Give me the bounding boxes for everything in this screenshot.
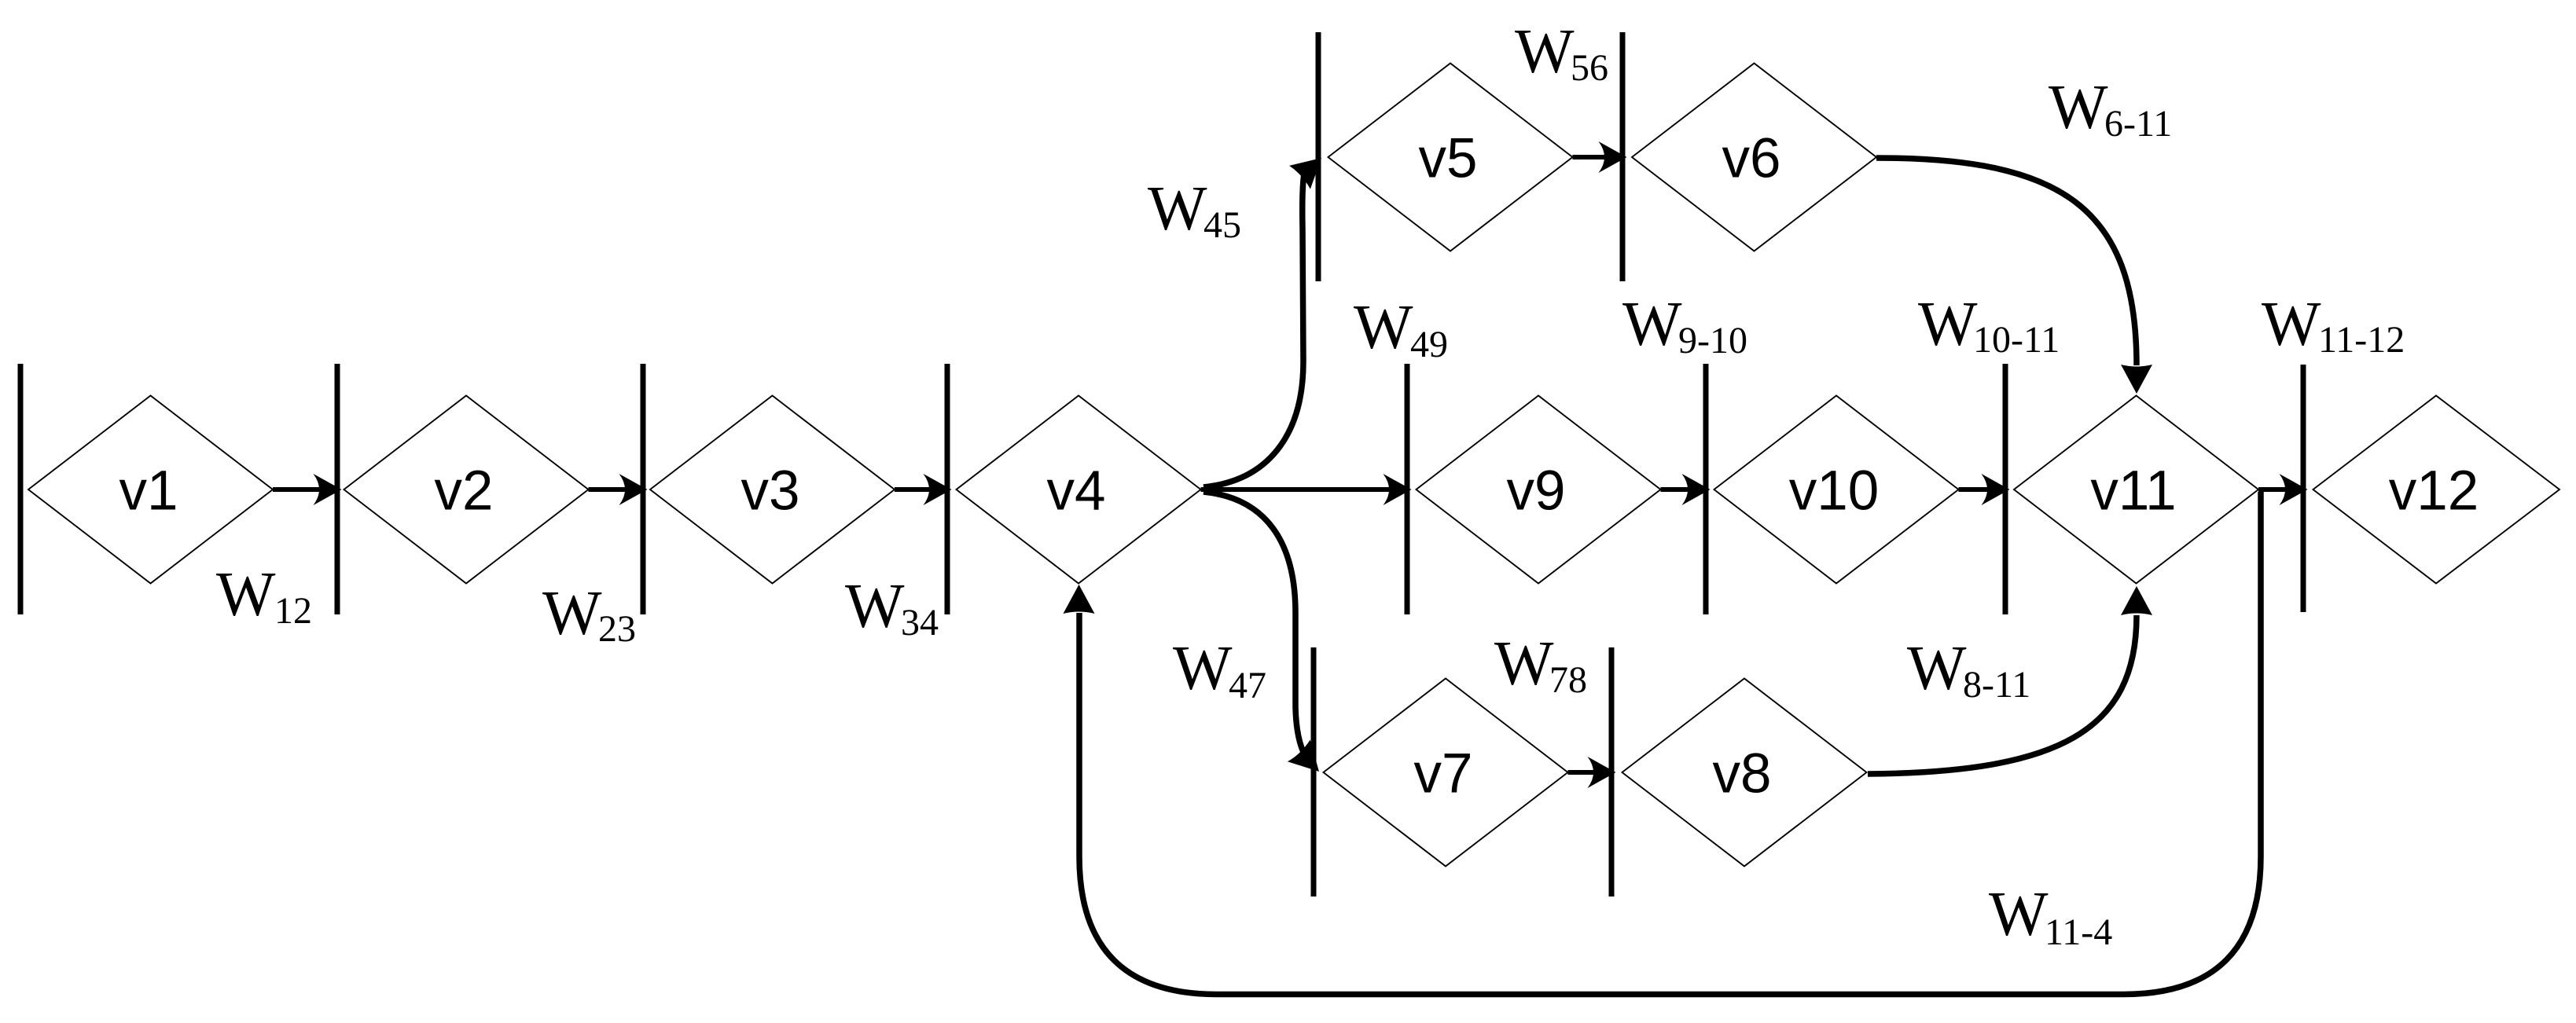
svg-text:45: 45 (1203, 204, 1241, 246)
arrow v2-v3 (589, 474, 648, 505)
bar W56 (1620, 32, 1626, 281)
arrow v10-v11 (1959, 474, 2010, 505)
svg-text:49: 49 (1410, 324, 1448, 365)
svg-text:v5: v5 (1419, 128, 1478, 190)
label W6-11 (2049, 73, 2172, 145)
label W10-11 (1918, 290, 2060, 361)
svg-text:78: 78 (1549, 659, 1587, 701)
svg-text:11-12: 11-12 (2318, 319, 2405, 361)
svg-text:v4: v4 (1047, 460, 1106, 522)
svg-text:34: 34 (901, 602, 939, 643)
label W8-11 (1907, 634, 2030, 706)
svg-text:v12: v12 (2389, 460, 2479, 522)
bar W34 (945, 364, 950, 614)
arrow v5-v6 (1573, 141, 1627, 173)
node v6 (1632, 64, 1876, 251)
bar W12 (335, 364, 340, 614)
arrow W11-4 feedback loop v11-v4 (1064, 492, 2262, 995)
node v2 (344, 396, 589, 584)
label W78 (1494, 629, 1587, 701)
node v10 (1714, 396, 1959, 584)
svg-text:W: W (1907, 634, 1967, 703)
bar W47 bottom (1311, 647, 1317, 896)
svg-text:W: W (1494, 629, 1554, 698)
svg-text:56: 56 (1571, 47, 1608, 89)
arrow W47 curve v4-v7 (1203, 492, 1330, 783)
svg-text:9-10: 9-10 (1678, 320, 1747, 361)
label W11-4 (1989, 880, 2112, 953)
arrow v4-v9 (1201, 474, 1412, 505)
bar start (18, 364, 24, 614)
label W12 (216, 560, 312, 632)
bar W23 (641, 364, 646, 614)
svg-text:v11: v11 (2090, 460, 2176, 522)
svg-text:W: W (1622, 290, 1682, 359)
label W9-10 (1622, 290, 1747, 361)
svg-text:W: W (216, 560, 276, 629)
label W49 (1354, 293, 1448, 365)
node v11 (2014, 396, 2258, 584)
bar W45 top (1316, 32, 1321, 281)
svg-text:W: W (1354, 293, 1413, 362)
svg-text:47: 47 (1229, 665, 1266, 706)
svg-text:12: 12 (274, 590, 312, 632)
node v8 (1622, 679, 1867, 867)
label W11-12 (2262, 290, 2405, 361)
bar W9-10 (1703, 364, 1709, 614)
svg-text:W: W (2262, 290, 2321, 359)
bar W78 (1609, 647, 1615, 896)
arrow v7-v8 (1568, 757, 1616, 788)
label W56 (1515, 17, 1608, 89)
svg-text:v7: v7 (1414, 743, 1473, 805)
arrow v11-v12 (2258, 474, 2308, 505)
node v1 (28, 396, 273, 584)
svg-text:v1: v1 (119, 460, 178, 522)
label W47 (1173, 634, 1266, 706)
svg-text:8-11: 8-11 (1963, 664, 2030, 706)
svg-text:v8: v8 (1713, 743, 1772, 805)
svg-text:W: W (1918, 290, 1978, 359)
node v3 (650, 396, 895, 584)
arrow v1-v2 (273, 474, 342, 505)
node v4 (957, 396, 1201, 584)
svg-text:W: W (1148, 174, 1207, 244)
svg-text:v3: v3 (741, 460, 800, 522)
svg-text:W: W (542, 579, 602, 648)
label W45 (1148, 174, 1241, 246)
svg-text:W: W (845, 572, 905, 641)
svg-text:v10: v10 (1789, 460, 1879, 522)
node v7 (1324, 679, 1568, 867)
svg-text:W: W (2049, 73, 2108, 142)
arrow W6-11 curve v6-v11 (1876, 158, 2152, 394)
arrow W45 curve v4-v5 (1203, 146, 1332, 487)
svg-text:v2: v2 (435, 460, 494, 522)
svg-text:6-11: 6-11 (2104, 103, 2172, 145)
svg-text:v6: v6 (1722, 128, 1781, 190)
arrow v9-v10 (1661, 474, 1711, 505)
label W23 (542, 579, 636, 650)
bar W49 (1405, 364, 1410, 614)
arrow v3-v4 (895, 474, 952, 505)
svg-text:10-11: 10-11 (1973, 319, 2060, 361)
svg-text:W: W (1173, 634, 1233, 703)
svg-text:11-4: 11-4 (2045, 911, 2112, 953)
bar W10-11 (2003, 364, 2008, 614)
node v9 (1417, 396, 1661, 584)
svg-text:23: 23 (598, 608, 636, 650)
bar W11-12 (2301, 365, 2306, 612)
node v12 (2313, 396, 2560, 584)
node v5 (1328, 64, 1573, 251)
arrow W8-11 curve v8-v11 (1868, 586, 2152, 774)
svg-text:W: W (1515, 17, 1575, 86)
svg-text:v9: v9 (1507, 460, 1566, 522)
svg-text:W: W (1989, 880, 2049, 949)
label W34 (845, 572, 939, 643)
